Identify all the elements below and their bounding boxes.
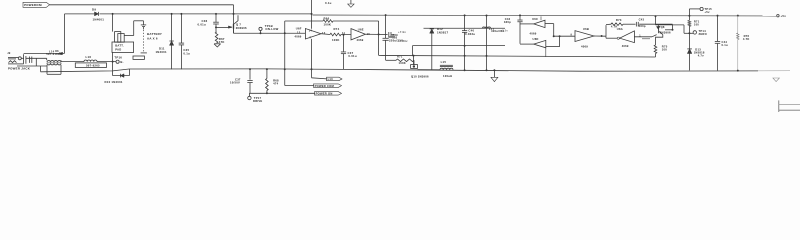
svg-text:U6C: U6C [532, 17, 538, 21]
svg-text:474: 474 [273, 81, 278, 85]
svg-text:AA X 6: AA X 6 [147, 36, 158, 40]
svg-text:0.1u: 0.1u [325, 1, 332, 5]
svg-text:4069: 4069 [581, 45, 588, 49]
svg-text:B-: B- [120, 60, 123, 64]
svg-text:C43: C43 [639, 18, 645, 22]
svg-text:13: 13 [297, 30, 301, 34]
svg-text:D9: D9 [92, 8, 96, 12]
svg-text:R73: R73 [616, 18, 622, 22]
svg-text:0.01u: 0.01u [348, 54, 356, 58]
svg-text:100K: 100K [324, 23, 332, 27]
svg-text:597-3180W: 597-3180W [46, 52, 62, 56]
svg-text:4.7v: 4.7v [698, 54, 704, 58]
svg-text:2N3906: 2N3906 [660, 31, 671, 35]
svg-text:100: 100 [694, 22, 699, 26]
svg-text:ZERO: ZERO [699, 32, 707, 36]
svg-text:U6E: U6E [358, 27, 364, 31]
svg-text:100: 100 [662, 48, 667, 52]
svg-text:POWER ON: POWER ON [316, 92, 333, 96]
svg-text:TP17: TP17 [254, 96, 262, 100]
svg-text:1N4001: 1N4001 [156, 50, 167, 54]
svg-text:10/50V: 10/50V [230, 81, 240, 85]
svg-text:0.1u: 0.1u [183, 51, 190, 55]
svg-text:4069: 4069 [530, 31, 537, 35]
svg-text:4069: 4069 [357, 38, 364, 42]
svg-text:BATT.: BATT. [115, 44, 124, 48]
svg-text:2N3906: 2N3906 [236, 26, 247, 30]
svg-text:Q10 2N3906: Q10 2N3906 [411, 74, 429, 78]
svg-text:U6F: U6F [296, 27, 302, 31]
svg-text:330p: 330p [504, 20, 511, 24]
svg-text:U6B: U6B [583, 27, 589, 31]
svg-text:14: 14 [309, 29, 313, 32]
svg-text:R71: R71 [397, 54, 403, 58]
svg-text:J9: J9 [7, 52, 11, 55]
svg-text:+2.5v: +2.5v [501, 29, 509, 32]
svg-text:U6D: U6D [533, 37, 539, 41]
svg-text:1N5817: 1N5817 [437, 30, 448, 34]
svg-text:100K: 100K [332, 38, 340, 42]
svg-text:R74: R74 [334, 27, 340, 31]
svg-text:POWERON/: POWERON/ [24, 3, 42, 7]
svg-text:DRIVE: DRIVE [253, 99, 262, 103]
svg-text:0.1u: 0.1u [722, 43, 728, 47]
svg-text:U8A: U8A [617, 27, 623, 31]
svg-text:0.022u: 0.022u [465, 32, 475, 36]
svg-text:4069: 4069 [622, 44, 629, 48]
svg-text:597-9265: 597-9265 [86, 63, 100, 67]
svg-text:POWER COM: POWER COM [315, 84, 335, 88]
svg-text:+5v: +5v [781, 14, 787, 18]
svg-text:+7.9v: +7.9v [398, 30, 406, 34]
svg-text:L15: L15 [441, 60, 447, 64]
svg-text:L16: L16 [86, 55, 92, 59]
svg-text:D10 1N4001: D10 1N4001 [105, 80, 123, 84]
svg-text:100K: 100K [399, 61, 406, 65]
svg-text:1N4001: 1N4001 [93, 18, 105, 22]
svg-text:4.7K: 4.7K [743, 37, 750, 41]
svg-text:L13: L13 [328, 77, 334, 81]
svg-text:+7.89v: +7.89v [398, 39, 408, 43]
svg-text:Q8: Q8 [661, 25, 665, 29]
svg-text:ON-LOW: ON-LOW [265, 27, 278, 31]
svg-text:+5v: +5v [704, 10, 710, 14]
svg-text:0.01u: 0.01u [198, 23, 206, 27]
svg-text:POWER JACK: POWER JACK [8, 67, 31, 71]
svg-text:R66: R66 [324, 16, 330, 20]
svg-text:11: 11 [342, 31, 346, 35]
svg-text:100uH: 100uH [443, 74, 452, 78]
svg-text:4069: 4069 [295, 35, 302, 39]
svg-text:PAD: PAD [115, 48, 121, 52]
